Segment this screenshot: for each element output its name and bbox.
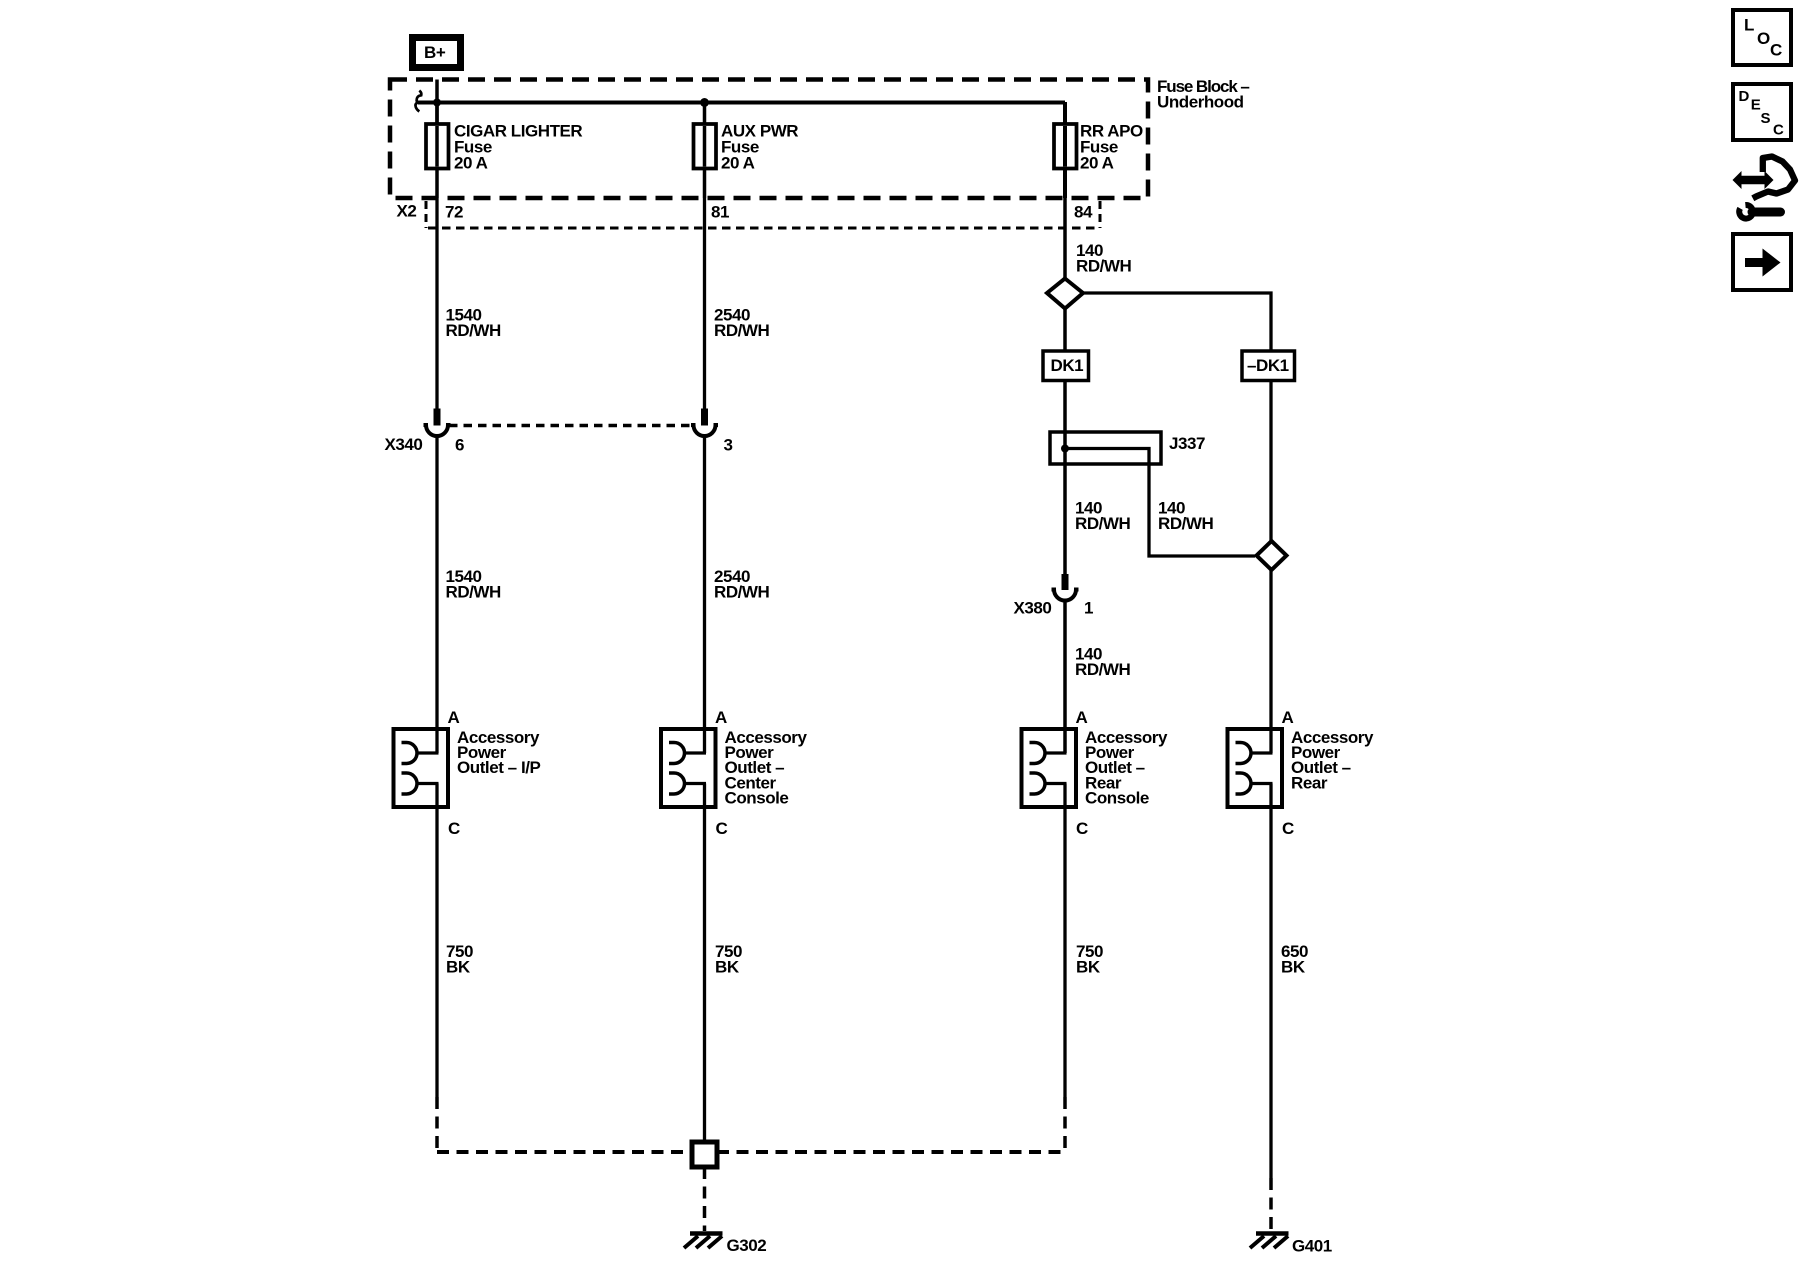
label 140 RD/WH right branch <box>1158 499 1214 534</box>
accessory power outlet center console <box>661 708 807 838</box>
svg-text:RD/WH: RD/WH <box>1076 257 1132 276</box>
svg-text:X340: X340 <box>385 435 423 454</box>
icon swap-wrench double arrow <box>1733 171 1774 189</box>
splice diamond S1 <box>1047 279 1083 309</box>
label 750 BK 1 <box>446 942 473 977</box>
svg-text:Outlet – I/P: Outlet – I/P <box>457 758 541 777</box>
connector X340 dashed tie line <box>449 424 692 428</box>
connector X340 pin6 female cup <box>424 425 451 436</box>
dashed ground bus horizontal right <box>717 1150 1065 1154</box>
wire 650 BK outlet4 <box>1269 784 1272 1179</box>
svg-text:RD/WH: RD/WH <box>714 321 770 340</box>
icon swap-wrench wrench <box>1739 205 1780 219</box>
svg-text:S: S <box>1761 110 1771 127</box>
label 650 BK <box>1281 942 1308 977</box>
icon DESC box <box>1733 84 1791 140</box>
svg-text:C: C <box>1282 819 1294 838</box>
ground G401 <box>1250 1234 1332 1256</box>
label 1540 RD/WH upper <box>446 306 502 341</box>
wire 2540 RD/WH lower segment <box>703 435 706 753</box>
node junction bus wire1 <box>433 99 441 107</box>
splice pack J337 box <box>1050 432 1205 464</box>
svg-text:RD/WH: RD/WH <box>714 583 770 602</box>
svg-text:6: 6 <box>455 436 464 455</box>
label 140 RD/WH left of X380 <box>1075 499 1131 534</box>
svg-text:–DK1: –DK1 <box>1247 356 1289 375</box>
icon swap-wrench outline arrow <box>1753 157 1795 199</box>
wire S1 down to DK1 <box>1063 307 1067 351</box>
svg-text:DK1: DK1 <box>1051 356 1084 375</box>
svg-text:RD/WH: RD/WH <box>1075 514 1131 533</box>
svg-text:BK: BK <box>1076 958 1101 977</box>
dashed wire 1 to ground bus <box>435 1097 439 1152</box>
splice diamond S2 <box>1257 541 1287 570</box>
svg-text:BK: BK <box>446 958 471 977</box>
connector X380 male terminal <box>1062 574 1069 590</box>
node junction bus wire2 <box>700 98 709 107</box>
svg-text:D: D <box>1739 88 1750 105</box>
svg-text:C: C <box>1773 122 1784 139</box>
label 750 BK 3 <box>1076 942 1103 977</box>
wire J337 internal to branch <box>1065 449 1255 557</box>
accessory power outlet I/P <box>394 708 541 838</box>
connector X340 pin3 male terminal <box>701 409 708 426</box>
connector X2 separator tick right <box>1099 201 1102 228</box>
connector X340 pin6 male terminal <box>434 409 441 426</box>
wire X380 to outlet rear console <box>1063 600 1067 753</box>
svg-text:72: 72 <box>445 203 463 222</box>
bus terminal hook inside fuse block <box>415 91 421 112</box>
svg-text:BK: BK <box>715 958 740 977</box>
svg-text:X380: X380 <box>1014 599 1052 618</box>
svg-text:Underhood: Underhood <box>1157 93 1244 112</box>
fuse block underhood dashed outline <box>390 80 1148 199</box>
in-line connector -DK1 <box>1242 351 1295 381</box>
connector X2 row dashed line <box>428 227 1100 230</box>
battery feed B+ box <box>413 38 461 68</box>
label 140 RD/WH below X380 <box>1075 645 1131 680</box>
fuse RR APO 20A <box>1054 102 1143 198</box>
connector X380 female cup <box>1052 590 1079 601</box>
label 750 BK 2 <box>715 942 742 977</box>
connector X340 pin3 female cup <box>691 425 718 436</box>
wire 2540 RD/WH upper segment <box>703 198 706 409</box>
svg-text:A: A <box>1076 708 1088 727</box>
svg-text:G401: G401 <box>1292 1237 1332 1256</box>
svg-text:RD/WH: RD/WH <box>1158 514 1214 533</box>
svg-text:1: 1 <box>1084 599 1093 618</box>
wire 1540 RD/WH upper segment <box>435 198 438 409</box>
wire bus B+ horizontal <box>418 101 1065 105</box>
label 1540 RD/WH lower <box>446 567 502 602</box>
label 2540 RD/WH upper <box>714 306 770 341</box>
icon LOC box <box>1733 10 1791 65</box>
svg-text:A: A <box>448 708 460 727</box>
svg-text:3: 3 <box>724 436 733 455</box>
svg-text:A: A <box>715 708 727 727</box>
svg-text:A: A <box>1282 708 1294 727</box>
svg-text:J337: J337 <box>1169 434 1205 453</box>
wire from B+ down to cigar fuse <box>435 80 439 125</box>
fuse CIGAR LIGHTER 20A <box>426 102 582 198</box>
svg-text:G302: G302 <box>727 1236 767 1255</box>
icon hyperlink arrow box <box>1733 234 1791 290</box>
svg-text:C: C <box>1770 41 1782 60</box>
svg-text:20 A: 20 A <box>454 154 488 173</box>
accessory power outlet rear <box>1228 708 1374 838</box>
svg-text:B+: B+ <box>424 43 446 62</box>
svg-text:E: E <box>1751 97 1761 114</box>
accessory power outlet rear console <box>1022 708 1168 838</box>
svg-text:84: 84 <box>1074 203 1093 222</box>
dashed wire 2 to G302 <box>703 1167 707 1231</box>
wire branch from S1 to right <box>1083 293 1271 351</box>
in-line connector DK1 <box>1043 351 1089 381</box>
svg-text:C: C <box>716 819 728 838</box>
svg-text:20 A: 20 A <box>721 154 755 173</box>
svg-text:Console: Console <box>725 789 789 808</box>
wire 750 BK outlet1 <box>435 784 438 1098</box>
wire -DK1 down to diamond S2 <box>1269 381 1272 543</box>
connector X2 separator tick left <box>425 201 428 228</box>
label 140 RD/WH top <box>1076 241 1132 276</box>
svg-text:L: L <box>1744 16 1754 35</box>
svg-text:20 A: 20 A <box>1080 154 1114 173</box>
ground junction box <box>692 1142 717 1167</box>
label Fuse Block - Underhood <box>1157 77 1249 112</box>
dashed ground bus horizontal left <box>437 1150 692 1154</box>
svg-text:C: C <box>1076 819 1088 838</box>
svg-text:O: O <box>1757 29 1770 48</box>
wire through J337 <box>1063 432 1067 574</box>
svg-text:81: 81 <box>711 203 729 222</box>
fuse AUX PWR 20A <box>694 102 799 198</box>
svg-text:X2: X2 <box>397 202 417 221</box>
wire 750 BK outlet3 <box>1063 784 1066 1098</box>
wire DK1 to J337 <box>1063 381 1067 433</box>
label 2540 RD/WH lower <box>714 567 770 602</box>
dashed wire 4 to G401 <box>1269 1178 1273 1231</box>
wire 1540 RD/WH lower segment <box>435 435 438 753</box>
ground G302 <box>684 1234 766 1256</box>
svg-text:Console: Console <box>1085 789 1149 808</box>
wire 140 RD/WH from RR APO fuse <box>1063 198 1067 280</box>
svg-text:BK: BK <box>1281 958 1306 977</box>
svg-text:Rear: Rear <box>1291 773 1328 792</box>
svg-text:RD/WH: RD/WH <box>446 583 502 602</box>
wire S2 to outlet rear <box>1269 569 1272 753</box>
svg-text:C: C <box>448 819 460 838</box>
wire 750 BK outlet2 <box>703 784 706 1143</box>
dashed wire 3 to ground bus <box>1063 1097 1067 1152</box>
node junction inside J337 <box>1061 445 1069 453</box>
svg-text:RD/WH: RD/WH <box>446 321 502 340</box>
svg-text:RD/WH: RD/WH <box>1075 660 1131 679</box>
